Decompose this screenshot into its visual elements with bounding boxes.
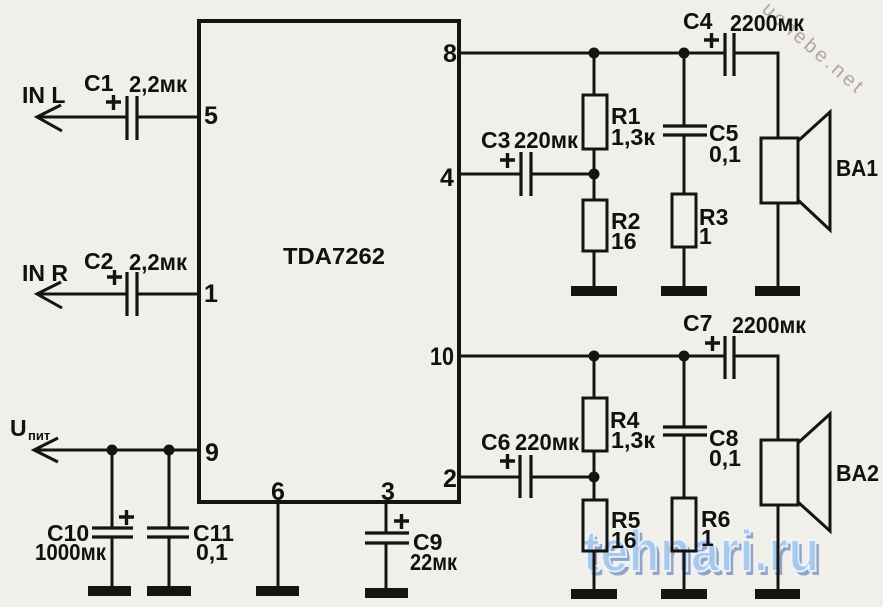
wire C4 to BA1 xyxy=(734,53,778,138)
speaker BA2 xyxy=(761,414,830,531)
wire R5 ground xyxy=(593,551,596,591)
svg-text:10: 10 xyxy=(430,343,454,371)
capacitor C10 xyxy=(92,528,133,537)
svg-text:22мк: 22мк xyxy=(410,549,457,575)
svg-text:2,2мк: 2,2мк xyxy=(129,249,187,275)
resistor R2 xyxy=(583,174,607,251)
junction node C11 xyxy=(164,445,175,456)
capacitor C5 xyxy=(663,126,707,135)
svg-text:1000мк: 1000мк xyxy=(35,539,106,565)
plus C6 xyxy=(500,454,515,469)
input arrow IN L xyxy=(37,105,62,131)
svg-text:C3: C3 xyxy=(481,127,510,153)
junction node C5 top xyxy=(679,48,690,59)
wire pin9 supply xyxy=(35,449,199,452)
wire BA2 ground xyxy=(777,505,780,592)
resistor R6 xyxy=(672,498,696,551)
plus C3 xyxy=(500,153,515,168)
resistor R5 xyxy=(583,477,607,551)
wire C9 bottom xyxy=(385,543,388,590)
capacitor C3 xyxy=(521,152,531,196)
ground R3 xyxy=(661,286,707,296)
wire R4 bottom xyxy=(593,451,596,477)
capacitor C1 xyxy=(127,96,137,140)
svg-text:1,3к: 1,3к xyxy=(611,427,655,453)
wire C8 top xyxy=(683,356,686,427)
speaker BA1 xyxy=(761,112,830,230)
capacitor C9 xyxy=(365,533,409,543)
svg-text:1: 1 xyxy=(701,525,714,551)
ground C10 xyxy=(88,586,131,596)
wire C5 to R3 xyxy=(683,135,686,194)
junction node C10 xyxy=(107,445,118,456)
junction node pin2 R4 R5 xyxy=(589,472,600,483)
input arrow IN R xyxy=(37,282,62,308)
wire R6 ground xyxy=(683,551,686,591)
wire C8 to R6 xyxy=(683,435,686,498)
plus C9 xyxy=(394,514,409,529)
svg-text:TDA7262: TDA7262 xyxy=(283,243,385,269)
svg-text:1: 1 xyxy=(204,280,218,308)
wire pin2 xyxy=(459,476,594,479)
svg-text:0,1: 0,1 xyxy=(709,445,741,471)
svg-text:C4: C4 xyxy=(683,8,713,34)
supply arrow Upit xyxy=(34,438,58,462)
IC U1 TDA7262 body xyxy=(199,21,459,502)
capacitor C8 xyxy=(663,427,707,435)
svg-text:16: 16 xyxy=(611,228,637,254)
ground C9 xyxy=(365,588,408,598)
wire C10 bottom xyxy=(111,537,114,588)
wire C5 top xyxy=(683,53,686,126)
capacitor C7 xyxy=(725,336,734,379)
ground C11 xyxy=(147,586,191,596)
resistor R4 xyxy=(583,356,607,451)
wire pin6 ground xyxy=(277,502,280,588)
ground R5 xyxy=(571,589,617,599)
svg-text:0,1: 0,1 xyxy=(196,539,228,565)
svg-text:6: 6 xyxy=(271,478,285,506)
svg-text:8: 8 xyxy=(443,40,457,68)
ground R6 xyxy=(661,589,707,599)
ground BA2 xyxy=(755,589,800,599)
label Upit xyxy=(10,415,50,443)
wire pin8 xyxy=(459,52,725,55)
svg-text:2,2мк: 2,2мк xyxy=(129,71,187,97)
svg-text:IN L: IN L xyxy=(22,82,65,108)
wire C11 bottom xyxy=(168,537,171,588)
svg-text:2200мк: 2200мк xyxy=(732,312,806,338)
svg-text:C7: C7 xyxy=(683,310,712,336)
svg-text:1,3к: 1,3к xyxy=(611,124,655,150)
svg-text:1: 1 xyxy=(699,223,712,249)
svg-text:IN R: IN R xyxy=(22,260,68,286)
svg-text:2200мк: 2200мк xyxy=(730,10,804,36)
wire C7 to BA2 xyxy=(734,356,778,440)
svg-text:BA1: BA1 xyxy=(836,155,878,181)
ground pin6 xyxy=(256,586,299,596)
svg-text:C1: C1 xyxy=(84,70,114,96)
resistor R1 xyxy=(583,53,607,149)
svg-text:0,1: 0,1 xyxy=(709,141,741,167)
junction node R1 top xyxy=(589,48,600,59)
wire pin4 xyxy=(459,173,594,176)
wire R2 ground xyxy=(593,251,596,288)
wire C11 top xyxy=(168,450,171,528)
svg-text:220мк: 220мк xyxy=(515,429,579,455)
svg-text:9: 9 xyxy=(205,439,219,467)
junction node R4 top xyxy=(589,351,600,362)
wire C10 top xyxy=(111,450,114,528)
wire R1 bottom xyxy=(593,149,596,174)
watermark tehnari.ru xyxy=(583,521,820,580)
plus C2 xyxy=(107,270,122,285)
svg-text:3: 3 xyxy=(381,478,395,506)
wire BA1 ground xyxy=(777,203,780,290)
plus C7 xyxy=(705,336,720,351)
capacitor C4 xyxy=(725,33,734,76)
junction node C8 top xyxy=(679,351,690,362)
capacitor C6 xyxy=(520,455,531,498)
plus C10 xyxy=(119,510,134,525)
ground R2 xyxy=(571,286,617,296)
svg-text:BA2: BA2 xyxy=(836,460,879,486)
plus C4 xyxy=(704,33,719,48)
svg-text:220мк: 220мк xyxy=(514,127,578,153)
svg-text:5: 5 xyxy=(204,102,218,130)
wire pin1 input xyxy=(38,293,199,296)
wire R3 ground xyxy=(683,247,686,288)
resistor R3 xyxy=(672,194,696,247)
capacitor C2 xyxy=(127,272,137,316)
svg-text:2: 2 xyxy=(443,465,457,493)
svg-text:пит: пит xyxy=(28,428,50,443)
svg-text:4: 4 xyxy=(440,164,454,192)
plus C1 xyxy=(106,95,121,110)
wire pin3 to C9 xyxy=(385,502,388,533)
svg-text:U: U xyxy=(10,415,27,441)
wire pin5 input xyxy=(38,116,199,119)
svg-text:16: 16 xyxy=(611,527,637,553)
svg-text:C6: C6 xyxy=(481,429,510,455)
svg-text:C2: C2 xyxy=(84,248,113,274)
watermark chebe.net xyxy=(757,0,869,100)
ground BA1 xyxy=(755,286,800,296)
capacitor C11 xyxy=(147,528,189,537)
wire pin10 xyxy=(459,355,725,358)
junction node pin4 R1 R2 xyxy=(589,169,600,180)
